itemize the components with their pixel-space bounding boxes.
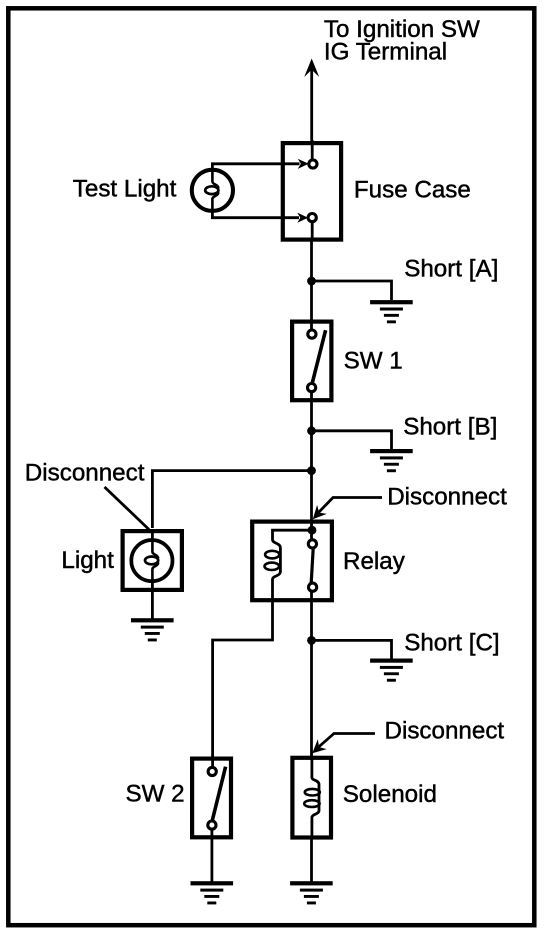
arrow: disconnect solenoid: [318, 734, 375, 748]
node: junction light branch: [307, 466, 316, 475]
Fuse Case box: [283, 143, 341, 240]
wire: into top fuse terminal: [311, 140, 314, 162]
wire: top feed to fuse case: [310, 68, 313, 143]
fuse terminal circle top: [309, 160, 317, 168]
wire: test light bottom lead: [212, 211, 299, 218]
node: junction short A: [307, 277, 316, 286]
wire: SW1 to relay: [310, 391, 313, 541]
svg-text:Relay: Relay: [343, 548, 406, 575]
ground: short A: [370, 300, 413, 323]
svg-text:Short [C]: Short [C]: [404, 630, 499, 657]
wire: short B branch: [312, 431, 392, 449]
svg-text:Disconnect: Disconnect: [387, 484, 507, 511]
SW 1 box: [292, 322, 331, 401]
light wire stub top: [151, 529, 154, 542]
SW2 terminal top: [208, 767, 216, 775]
ground: short B: [370, 449, 413, 472]
SW1 terminal top: [308, 330, 316, 338]
relay coil loop 1: [265, 551, 279, 559]
Test Light circle: [192, 170, 233, 211]
solenoid coil loop 2: [304, 800, 319, 807]
wire: fuse case to SW1: [310, 242, 313, 331]
svg-text:Solenoid: Solenoid: [343, 781, 437, 808]
svg-text:SW 1: SW 1: [344, 347, 403, 374]
test light filament: [212, 171, 218, 188]
wire: from bottom fuse terminal down: [311, 221, 314, 240]
SW2 terminal bottom: [208, 821, 216, 829]
arrowhead into bottom fuse terminal: [297, 213, 308, 223]
solenoid coil loop 1: [305, 789, 320, 796]
label: To Ignition SW / IG Terminal: [324, 16, 480, 66]
wire: short C branch: [312, 640, 392, 658]
Light box: [123, 531, 182, 590]
node: junction short C: [307, 636, 316, 645]
wire: relay coil to SW2: [213, 600, 273, 768]
fuse terminal circle bottom: [308, 214, 316, 222]
svg-text:Fuse Case: Fuse Case: [354, 177, 471, 204]
Solenoid box: [292, 758, 331, 838]
SW2 blade: [212, 767, 225, 820]
wire: relay switch down to junction C: [310, 591, 313, 641]
light bulb circle: [131, 540, 172, 581]
ground: short C: [370, 659, 413, 682]
relay contact terminal top: [308, 540, 316, 548]
light filament: [152, 541, 158, 558]
svg-text:SW 2: SW 2: [126, 781, 185, 808]
SW1 blade: [312, 330, 325, 382]
light wire stub bottom: [151, 579, 154, 592]
svg-text:Disconnect: Disconnect: [25, 460, 145, 487]
arrowhead into top fuse terminal: [298, 159, 309, 169]
pointer line from Disconnect to light wire: [105, 487, 150, 530]
svg-text:Short [A]: Short [A]: [404, 256, 498, 283]
svg-text:Test Light: Test Light: [73, 175, 177, 202]
svg-text:Light: Light: [61, 547, 114, 574]
relay coil loop 2: [265, 563, 280, 570]
SW1 terminal bottom: [308, 384, 316, 392]
arrow up to ignition: [304, 59, 319, 78]
solenoid coil wire: [312, 756, 319, 839]
wire: solenoid to ground: [310, 837, 313, 882]
arrow: disconnect relay: [319, 498, 383, 513]
wire: light to ground: [151, 590, 154, 619]
node: relay internal junction: [308, 526, 317, 535]
ground: solenoid: [290, 881, 333, 904]
wire: branch to light: [152, 471, 311, 528]
svg-text:IG Terminal: IG Terminal: [324, 38, 447, 65]
svg-text:Short [B]: Short [B]: [403, 413, 497, 440]
svg-text:Disconnect: Disconnect: [385, 717, 505, 744]
wire: short A branch: [312, 281, 392, 300]
wire: test light top lead: [212, 164, 299, 170]
SW 2 box: [192, 759, 231, 838]
node: junction short B: [307, 426, 316, 435]
relay blade: [311, 548, 313, 583]
wire: SW2 to ground: [210, 828, 213, 882]
relay coil wire: [273, 530, 313, 601]
Relay box: [252, 522, 332, 601]
relay contact terminal bottom: [309, 583, 317, 591]
wire: junction C to solenoid: [310, 641, 313, 757]
ground: light: [131, 618, 174, 641]
ground: SW2: [191, 881, 234, 904]
